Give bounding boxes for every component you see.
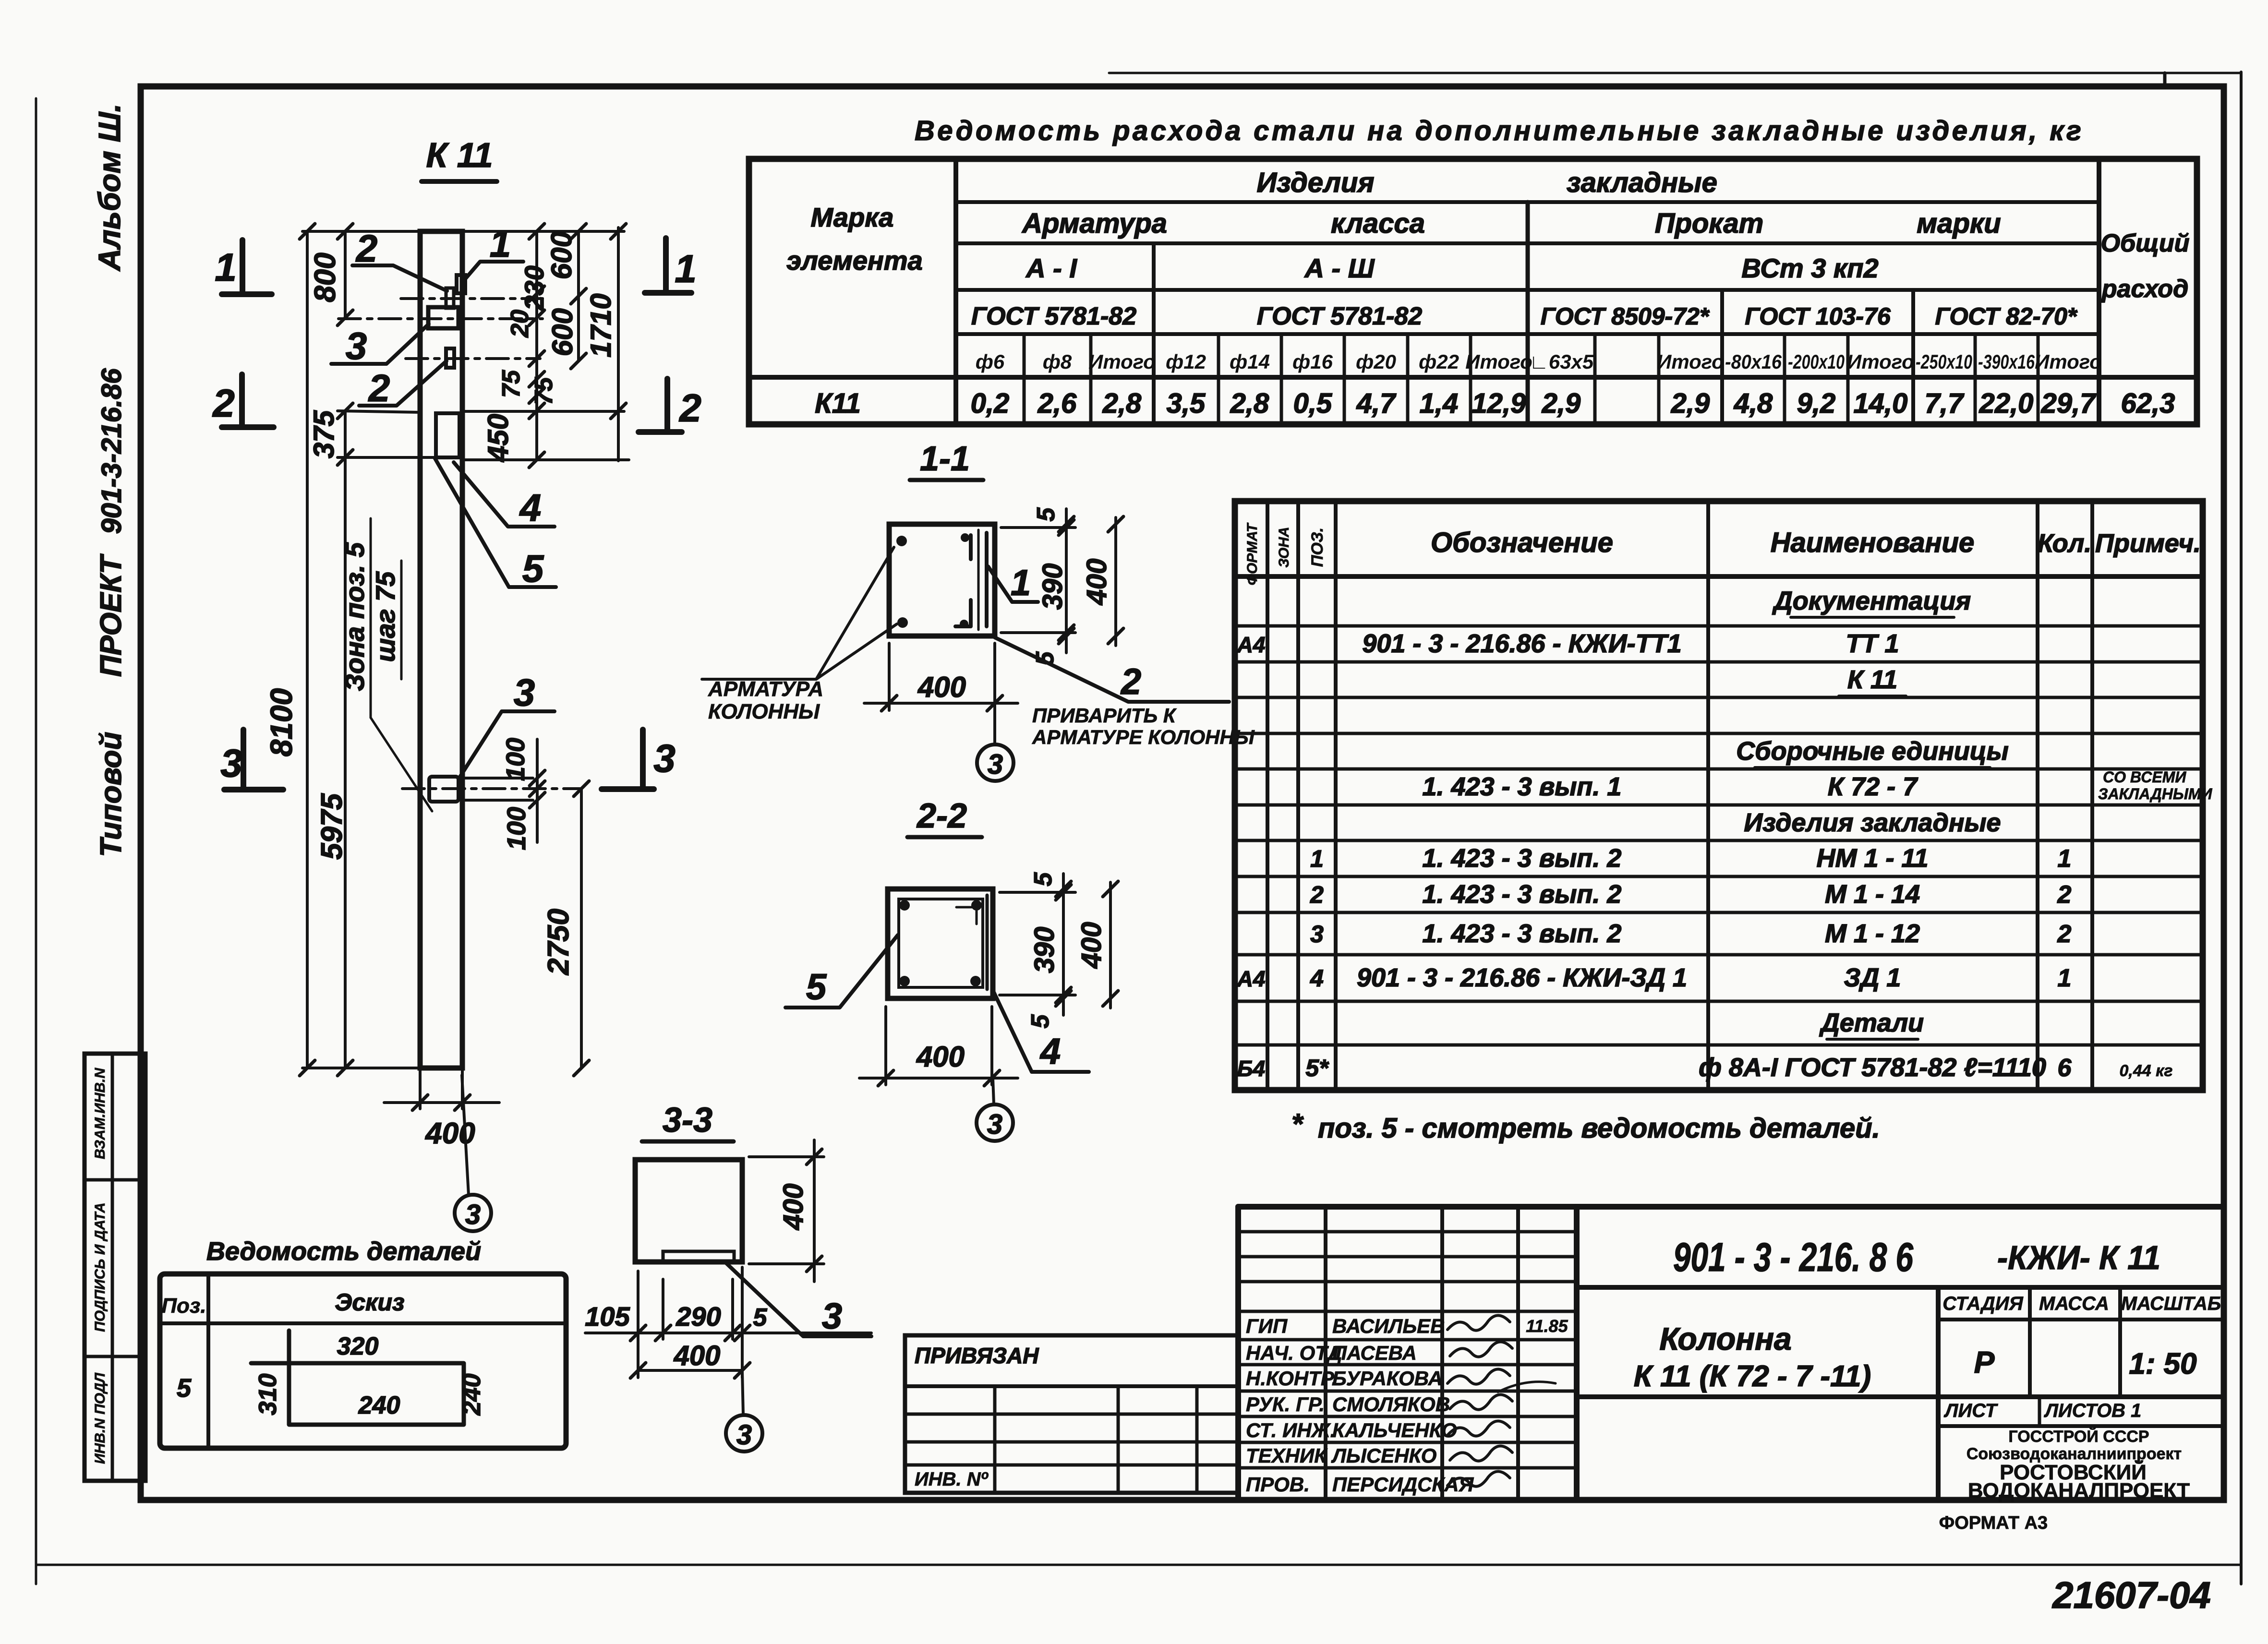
line under 901 row xyxy=(1577,1285,2224,1290)
svg-text:∟63х5: ∟63х5 xyxy=(1529,350,1594,373)
svg-text:Итого: Итого xyxy=(1847,350,1914,373)
small plate right edge 2-2 xyxy=(986,895,989,989)
svg-text:400: 400 xyxy=(917,671,966,703)
svg-text:2,6: 2,6 xyxy=(1037,388,1077,419)
svg-text:Альбом Ш.: Альбом Ш. xyxy=(92,104,127,272)
svg-text:А4: А4 xyxy=(1237,632,1266,657)
svg-text:901 - 3 - 216.86 - КЖИ-ЗД 1: 901 - 3 - 216.86 - КЖИ-ЗД 1 xyxy=(1357,963,1687,992)
svg-text:9,2: 9,2 xyxy=(1797,388,1836,419)
svg-text:Документация: Документация xyxy=(1772,587,1971,615)
svg-text:Поз.: Поз. xyxy=(161,1294,206,1318)
steel table small col split xyxy=(1217,334,1220,424)
spec row line xyxy=(1235,953,2203,957)
svg-text:3: 3 xyxy=(736,1419,752,1451)
svg-text:ВАСИЛЬЕВ: ВАСИЛЬЕВ xyxy=(1332,1315,1445,1337)
axis of plate 1/2 xyxy=(401,297,543,300)
embedded channel plate in 1-1 xyxy=(985,533,989,626)
svg-text:ГИП: ГИП xyxy=(1246,1315,1288,1337)
embedded console plate pos.4/5 xyxy=(436,413,459,457)
svg-text:Общий: Общий xyxy=(2101,229,2190,257)
dims 5/390/400 right of 1-1 xyxy=(1001,526,1075,529)
svg-text:14,0: 14,0 xyxy=(1854,388,1908,419)
svg-text:ГОССТРОЙ СССР: ГОССТРОЙ СССР xyxy=(2008,1427,2149,1446)
svg-text:ЗОНА: ЗОНА xyxy=(1276,527,1292,567)
rebar dot top-right xyxy=(961,533,969,542)
title block left xyxy=(1235,1207,1241,1500)
leader to detail circle 3 xyxy=(462,1075,469,1195)
svg-text:К11: К11 xyxy=(815,388,861,419)
svg-text:22,0: 22,0 xyxy=(1979,388,2034,419)
svg-text:Кол.: Кол. xyxy=(2038,529,2092,558)
steel table small col split xyxy=(1023,334,1026,424)
line under лист row xyxy=(1938,1424,2224,1428)
spec col line xyxy=(1296,501,1300,1090)
stirrup in 2-2 xyxy=(899,899,983,987)
svg-text:ПОДПИСЬ И ДАТА: ПОДПИСЬ И ДАТА xyxy=(92,1202,108,1332)
ext line bottom xyxy=(302,1067,420,1069)
dim 400 bottom of 1-1 xyxy=(888,643,891,710)
steel table small col split xyxy=(1280,334,1283,424)
steel table col: арматура|прокат xyxy=(1526,202,1530,424)
svg-text:Марка: Марка xyxy=(811,202,894,232)
svg-text:марки: марки xyxy=(1917,208,2001,239)
svg-text:600: 600 xyxy=(545,231,578,279)
стадия header underline xyxy=(1938,1318,2224,1321)
spec col line xyxy=(1334,501,1338,1090)
svg-text:3: 3 xyxy=(988,749,1003,780)
steel table row line 1 xyxy=(956,200,2099,204)
underline K11 xyxy=(422,179,497,184)
embedded plate pos.1 xyxy=(457,275,465,293)
svg-text:шаг 75: шаг 75 xyxy=(370,571,400,662)
embedded plate pos.2 xyxy=(446,348,454,368)
svg-text:0,2: 0,2 xyxy=(971,388,1010,419)
steel table small col split xyxy=(1343,334,1346,424)
svg-text:закладные: закладные xyxy=(1567,167,1717,198)
column body outline xyxy=(420,231,462,1068)
steel table col split 103|82-70 xyxy=(1911,290,1915,424)
outer sheet edge top partial xyxy=(1109,72,2241,74)
ext line at 450 top xyxy=(464,410,624,413)
svg-text:ПРИВЯЗАН: ПРИВЯЗАН xyxy=(915,1343,1039,1368)
svg-text:4,8: 4,8 xyxy=(1734,388,1773,419)
svg-text:Изделия: Изделия xyxy=(1256,167,1374,198)
svg-text:ГОСТ 5781-82: ГОСТ 5781-82 xyxy=(971,302,1136,330)
svg-text:Детали: Детали xyxy=(1819,1008,1924,1037)
svg-text:КОЛОННЫ: КОЛОННЫ xyxy=(708,700,820,723)
embedded plate pos.3 upper xyxy=(428,307,458,328)
svg-text:КАЛЬЧЕНКО: КАЛЬЧЕНКО xyxy=(1332,1419,1457,1441)
ext line at console bottom right xyxy=(462,458,629,461)
svg-text:класса: класса xyxy=(1331,208,1425,239)
svg-text:-200х10: -200х10 xyxy=(1788,350,1845,373)
svg-text:5*: 5* xyxy=(1305,1055,1329,1081)
svg-text:2: 2 xyxy=(2057,881,2072,909)
staff row line xyxy=(1238,1466,1577,1470)
svg-text:4,7: 4,7 xyxy=(1356,388,1397,419)
ext left 3-3 xyxy=(637,1271,639,1378)
dim 400 bottom of 2-2 xyxy=(884,1007,887,1085)
right ext line top xyxy=(462,230,624,233)
svg-text:1: 1 xyxy=(675,247,697,291)
svg-text:0,5: 0,5 xyxy=(1293,388,1332,419)
chain dim line 3-3 xyxy=(585,1332,871,1334)
svg-text:290: 290 xyxy=(676,1301,721,1332)
svg-text:390: 390 xyxy=(1029,927,1060,973)
steel table outer box xyxy=(749,159,2197,424)
leader 3 in 3-3 xyxy=(726,1263,871,1336)
svg-text:75: 75 xyxy=(497,370,525,398)
staff row line xyxy=(1238,1280,1577,1284)
steel table row line 2 xyxy=(956,241,2099,245)
split стадия|масса xyxy=(2028,1287,2032,1397)
svg-text:4: 4 xyxy=(1039,1031,1061,1072)
svg-text:5: 5 xyxy=(177,1374,192,1403)
svg-text:1: 1 xyxy=(1011,563,1031,603)
svg-text:3,5: 3,5 xyxy=(1167,388,1206,419)
svg-text:Итого: Итого xyxy=(2035,350,2102,373)
svg-text:2,9: 2,9 xyxy=(1671,388,1710,419)
svg-text:ИНВ. Nº: ИНВ. Nº xyxy=(915,1469,989,1490)
spec col line xyxy=(1706,501,1710,1090)
axis of lower plate xyxy=(402,787,581,790)
staff row line xyxy=(1238,1390,1577,1393)
svg-text:-КЖИ- К 11: -КЖИ- К 11 xyxy=(1997,1239,2160,1276)
svg-text:Итого: Итого xyxy=(1657,350,1724,373)
svg-text:1: 1 xyxy=(2058,845,2072,873)
svg-text:7,7: 7,7 xyxy=(1925,388,1965,419)
embedded plate pos.2 top xyxy=(446,288,454,308)
title block top xyxy=(1238,1204,2224,1210)
detail header line xyxy=(160,1321,566,1325)
plate 3 in section 3-3 xyxy=(663,1251,734,1261)
circled mark 3 under column xyxy=(455,1195,491,1231)
svg-text:Сборочные единицы: Сборочные единицы xyxy=(1736,737,2009,766)
svg-text:1. 423 - 3 вып. 2: 1. 423 - 3 вып. 2 xyxy=(1423,844,1622,873)
section 2-2 concrete outline xyxy=(888,889,993,998)
detail table outer xyxy=(160,1274,566,1448)
ext line console bottom xyxy=(338,456,455,459)
staff row line xyxy=(1238,1310,1577,1313)
svg-text:МАСШТАБ: МАСШТАБ xyxy=(2121,1293,2221,1314)
svg-text:ВЗАМ.ИНВ.N: ВЗАМ.ИНВ.N xyxy=(92,1068,108,1159)
dim 8100 line xyxy=(306,231,309,1068)
outer sheet edge right xyxy=(2240,72,2243,1584)
svg-text:Примеч.: Примеч. xyxy=(2095,529,2201,558)
svg-text:ФОРМАТ: ФОРМАТ xyxy=(1244,522,1260,585)
svg-text:ф14: ф14 xyxy=(1230,350,1270,373)
spec row line xyxy=(1235,1044,2203,1047)
svg-text:Б4: Б4 xyxy=(1237,1056,1265,1081)
spec col line xyxy=(2090,501,2094,1090)
svg-text:ПАСЕВА: ПАСЕВА xyxy=(1332,1342,1417,1364)
svg-text:12,9: 12,9 xyxy=(1472,388,1526,419)
section 1-1 concrete outline xyxy=(889,524,995,636)
right dim chain x=1205 (600/600) xyxy=(577,231,580,361)
signature squiggle xyxy=(1450,1342,1512,1356)
svg-text:ф20: ф20 xyxy=(1356,350,1396,373)
svg-text:62,3: 62,3 xyxy=(2121,388,2175,419)
svg-text:БУРАКОВА: БУРАКОВА xyxy=(1332,1367,1443,1390)
svg-text:Н.КОНТР.: Н.КОНТР. xyxy=(1246,1367,1337,1390)
split масса|масштаб xyxy=(2118,1287,2122,1397)
detail col Поз xyxy=(206,1274,210,1448)
привязан table xyxy=(905,1335,1238,1493)
leader to plate 2 lower xyxy=(359,361,446,406)
svg-text:ЛИСТОВ 1: ЛИСТОВ 1 xyxy=(2044,1400,2142,1421)
signature squiggle xyxy=(1448,1369,1510,1384)
svg-text:2,8: 2,8 xyxy=(1102,388,1142,419)
svg-text:ВОДОКАНАЛПРОЕКТ: ВОДОКАНАЛПРОЕКТ xyxy=(1968,1479,2190,1502)
svg-text:3: 3 xyxy=(1310,921,1324,948)
svg-text:2: 2 xyxy=(2057,920,2072,948)
bracket mark 2-2 xyxy=(956,907,977,924)
spec col line xyxy=(1266,501,1269,1090)
svg-text:поз. 5 - смотреть ведомос: поз. 5 - смотреть ведомость деталей. xyxy=(1318,1113,1880,1144)
svg-text:1: 1 xyxy=(215,246,237,289)
svg-text:ЛЫСЕНКО: ЛЫСЕНКО xyxy=(1331,1444,1436,1467)
circled mark 3 under 1-1 xyxy=(977,744,1013,781)
svg-text:400: 400 xyxy=(778,1184,809,1231)
svg-text:ВСт 3 кп2: ВСт 3 кп2 xyxy=(1741,253,1878,283)
svg-text:СО ВСЕМИ: СО ВСЕМИ xyxy=(2103,768,2186,786)
leader to console pos.4 xyxy=(454,462,555,527)
svg-text:5: 5 xyxy=(1032,507,1060,521)
label 4 leader 2-2 xyxy=(993,990,1089,1072)
svg-text:4: 4 xyxy=(519,486,542,529)
leader circle 3 under 2-2 xyxy=(993,1078,994,1104)
outer sheet edge left xyxy=(35,98,37,1584)
ext line at 2-2 level xyxy=(338,411,420,412)
dim 400 under column xyxy=(419,1068,422,1109)
svg-text:Итого: Итого xyxy=(1088,350,1156,373)
steel table row line 4 xyxy=(956,332,2099,336)
svg-text:310: 310 xyxy=(254,1374,282,1416)
steel table small col split xyxy=(1469,334,1472,424)
label 5 leader 2-2 xyxy=(785,935,898,1008)
rebar dot bottom-left xyxy=(897,617,908,628)
section mark 1-1 left xyxy=(240,240,245,294)
ext line top xyxy=(302,230,420,233)
staff row line xyxy=(1238,1415,1577,1418)
svg-text:5: 5 xyxy=(1026,1014,1054,1028)
section mark 2-2 left xyxy=(239,374,245,427)
inventory stamp strip xyxy=(84,1054,145,1481)
spec row line xyxy=(1235,1000,2203,1003)
svg-text:ф12: ф12 xyxy=(1166,350,1206,373)
label 1 leader (plate) xyxy=(988,566,1038,602)
underline zona xyxy=(370,518,372,718)
spec row line xyxy=(1235,839,2203,842)
svg-text:2: 2 xyxy=(678,386,701,430)
vert стадия col xyxy=(1936,1287,1941,1500)
svg-text:Типовой: Типовой xyxy=(95,732,128,857)
dim 400 right of 3-3 xyxy=(749,1155,824,1158)
svg-text:450: 450 xyxy=(482,414,514,462)
svg-text:РУК. ГР.: РУК. ГР. xyxy=(1246,1393,1325,1416)
page corner tick xyxy=(2163,73,2167,86)
svg-text:А - Ш: А - Ш xyxy=(1303,253,1375,283)
svg-text:3-3: 3-3 xyxy=(663,1101,712,1140)
svg-text:ГОСТ 103-76: ГОСТ 103-76 xyxy=(1745,303,1891,330)
svg-text:1: 1 xyxy=(490,222,511,265)
right dim chain x=1118 xyxy=(535,231,538,460)
svg-text:901 - 3 - 216. 8 6: 901 - 3 - 216. 8 6 xyxy=(1673,1235,1914,1280)
leader circle 3 under 3-3 xyxy=(742,1371,743,1415)
embedded plate pos.3 lower xyxy=(429,777,458,802)
svg-text:2,9: 2,9 xyxy=(1542,388,1581,419)
leader to lower plate 3 xyxy=(459,711,555,778)
svg-text:Р: Р xyxy=(1974,1345,1995,1380)
signature tail xyxy=(1498,1382,1556,1392)
section mark 1-1 right xyxy=(663,238,669,293)
svg-text:элемента: элемента xyxy=(786,245,922,276)
svg-text:400: 400 xyxy=(424,1117,475,1150)
svg-text:ТЕХНИК: ТЕХНИК xyxy=(1246,1444,1328,1467)
svg-text:390: 390 xyxy=(1037,564,1068,610)
svg-text:А - I: А - I xyxy=(1025,253,1077,283)
svg-text:М 1 - 14: М 1 - 14 xyxy=(1825,880,1920,909)
svg-text:3: 3 xyxy=(987,1109,1002,1140)
svg-text:400: 400 xyxy=(1076,922,1107,969)
staff col sign|date xyxy=(1516,1207,1520,1500)
title block staff/name divider xyxy=(1574,1207,1580,1500)
svg-text:5: 5 xyxy=(753,1304,768,1332)
svg-text:20: 20 xyxy=(506,310,534,338)
svg-text:2: 2 xyxy=(1120,661,1141,702)
leader to console pos.5 xyxy=(435,458,556,587)
circled mark 3 under 3-3 xyxy=(726,1415,762,1452)
svg-text:11.85: 11.85 xyxy=(1526,1316,1568,1336)
steel table small col split xyxy=(1657,334,1661,424)
svg-text:800: 800 xyxy=(309,252,342,302)
svg-text:*: * xyxy=(1291,1108,1304,1140)
rebar dot bottom-right xyxy=(960,620,968,628)
line above лист row xyxy=(1577,1394,2224,1399)
steel table row line 3 xyxy=(956,288,2099,292)
dims 5/390/400 right of 2-2 xyxy=(1000,891,1075,894)
svg-text:МАССА: МАССА xyxy=(2039,1293,2109,1314)
svg-text:1710: 1710 xyxy=(585,293,617,357)
svg-text:2-2: 2-2 xyxy=(916,797,967,835)
svg-text:НАЧ. ОТД: НАЧ. ОТД xyxy=(1246,1342,1342,1364)
svg-text:2: 2 xyxy=(368,367,390,409)
right overall dim 1710 xyxy=(617,228,620,461)
steel table small col split xyxy=(1783,334,1786,424)
svg-text:100: 100 xyxy=(502,807,531,850)
leader to plate 1 xyxy=(462,262,523,282)
steel table row line 5 (above data) xyxy=(749,375,2197,380)
axis of plate 2 xyxy=(406,357,540,360)
section mark 2-2 right xyxy=(664,379,670,432)
svg-text:ПРОЕКТ: ПРОЕКТ xyxy=(95,553,128,677)
main drawing frame xyxy=(141,86,2224,1500)
svg-text:5: 5 xyxy=(522,547,544,590)
spec row line xyxy=(1235,732,2203,735)
dim 2750 xyxy=(580,789,583,1068)
svg-text:Эскиз: Эскиз xyxy=(335,1289,404,1316)
circled mark 3 under 2-2 xyxy=(977,1104,1013,1141)
svg-text:6: 6 xyxy=(2058,1054,2072,1082)
spec row line xyxy=(1235,911,2203,914)
section mark 3-3 right xyxy=(640,730,646,789)
spec row line xyxy=(1235,624,2203,628)
svg-text:ф22: ф22 xyxy=(1419,350,1459,373)
svg-text:1. 423 - 3 вып. 2: 1. 423 - 3 вып. 2 xyxy=(1423,919,1622,948)
svg-text:К 11: К 11 xyxy=(1847,665,1897,694)
leader to plate 2 (top) xyxy=(352,265,447,291)
svg-text:2,8: 2,8 xyxy=(1230,388,1269,419)
dim chain 800/375/5975 line xyxy=(344,231,347,318)
svg-text:240: 240 xyxy=(458,1374,486,1416)
svg-text:АРМАТУРА: АРМАТУРА xyxy=(708,677,823,701)
svg-text:0,44 кг: 0,44 кг xyxy=(2120,1062,2173,1080)
svg-text:ПРОВ.: ПРОВ. xyxy=(1246,1473,1310,1496)
svg-text:-80х16: -80х16 xyxy=(1725,350,1782,373)
underline 3-3 xyxy=(642,1140,734,1144)
svg-text:А4: А4 xyxy=(1237,966,1266,991)
spec row line xyxy=(1235,696,2203,699)
svg-text:ГОСТ 82-70*: ГОСТ 82-70* xyxy=(1935,303,2078,330)
rebar dot top-left xyxy=(896,536,907,546)
svg-text:2750: 2750 xyxy=(542,909,575,975)
underline 2-2 xyxy=(907,835,982,840)
detail 5 sketch: stirrup outline xyxy=(251,1331,464,1425)
svg-text:1-1: 1-1 xyxy=(920,440,970,478)
leader to plate 3 upper xyxy=(331,324,429,364)
leader to rebar 1 xyxy=(816,547,894,679)
svg-text:Итого: Итого xyxy=(1465,350,1532,373)
svg-text:Наименование: Наименование xyxy=(1771,527,1974,558)
spec row line xyxy=(1235,875,2203,878)
svg-text:8100: 8100 xyxy=(264,688,299,756)
svg-text:21607-04: 21607-04 xyxy=(2051,1574,2211,1616)
section mark 3-3 left xyxy=(241,730,246,790)
svg-text:600: 600 xyxy=(546,308,579,356)
svg-text:375: 375 xyxy=(308,409,340,458)
staff col names|sign xyxy=(1440,1207,1444,1500)
signature squiggle xyxy=(1448,1421,1510,1436)
svg-text:Изделия закладные: Изделия закладные xyxy=(1744,808,2001,837)
spec row line xyxy=(1235,768,2203,771)
signature squiggle xyxy=(1450,1394,1512,1409)
leader circle 3 under 1-1 xyxy=(993,703,996,744)
svg-text:4: 4 xyxy=(1310,965,1324,992)
svg-text:СМОЛЯКОВ: СМОЛЯКОВ xyxy=(1332,1393,1450,1416)
steel table small col split xyxy=(1406,334,1410,424)
svg-text:105: 105 xyxy=(585,1301,630,1332)
svg-text:1: 50: 1: 50 xyxy=(2129,1347,2196,1380)
svg-text:901 - 3 - 216.86 - КЖИ-ТТ1: 901 - 3 - 216.86 - КЖИ-ТТ1 xyxy=(1362,629,1681,658)
spec col line xyxy=(2036,501,2039,1090)
svg-text:901-3-216.86: 901-3-216.86 xyxy=(96,368,127,534)
svg-text:75: 75 xyxy=(530,377,558,405)
spec header bottom xyxy=(1235,574,2203,579)
svg-text:3: 3 xyxy=(514,671,535,714)
svg-text:3: 3 xyxy=(220,742,242,785)
steel table col split 8509|103 xyxy=(1720,290,1724,424)
svg-text:Обозначение: Обозначение xyxy=(1431,527,1613,558)
signature squiggle xyxy=(1448,1471,1510,1486)
svg-text:Ведомость деталей: Ведомость деталей xyxy=(206,1237,481,1266)
svg-text:Ведомость расхода стали на доп: Ведомость расхода стали на дополнительны… xyxy=(915,115,2081,146)
steel table small col split xyxy=(1089,334,1093,424)
svg-text:ф 8А-I ГОСТ 5781-82 ℓ=1110: ф 8А-I ГОСТ 5781-82 ℓ=1110 xyxy=(1699,1053,2046,1082)
steel table small col split xyxy=(1593,334,1597,424)
signature squiggle xyxy=(1450,1446,1512,1461)
svg-text:ПОЗ.: ПОЗ. xyxy=(1308,528,1327,567)
split лист|листов xyxy=(2038,1397,2041,1426)
